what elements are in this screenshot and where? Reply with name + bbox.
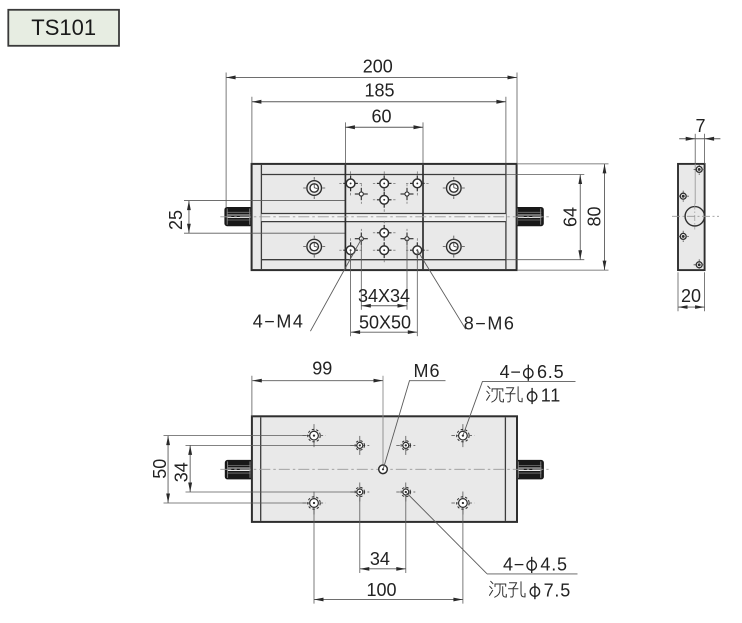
svg-text:4−M4: 4−M4 (253, 312, 305, 332)
svg-text:100: 100 (366, 580, 396, 600)
svg-text:M6: M6 (414, 361, 441, 381)
svg-text:34: 34 (171, 462, 191, 482)
svg-text:200: 200 (363, 57, 393, 77)
svg-text:34X34: 34X34 (358, 286, 410, 306)
svg-text:99: 99 (312, 358, 332, 378)
svg-text:80: 80 (585, 206, 605, 226)
svg-text:185: 185 (364, 81, 394, 101)
svg-text:25: 25 (166, 210, 186, 230)
svg-text:7.5: 7.5 (544, 581, 571, 601)
svg-text:8−M6: 8−M6 (464, 314, 516, 334)
svg-text:34: 34 (370, 549, 390, 569)
svg-text:11: 11 (541, 386, 561, 406)
svg-text:6.5: 6.5 (537, 362, 564, 382)
svg-text:60: 60 (371, 107, 391, 127)
svg-text:64: 64 (560, 207, 580, 227)
svg-text:50: 50 (150, 459, 170, 479)
svg-text:4−: 4− (503, 554, 525, 574)
svg-text:50X50: 50X50 (359, 313, 411, 333)
svg-text:7: 7 (695, 116, 705, 136)
svg-text:TS101: TS101 (31, 15, 96, 40)
svg-text:4.5: 4.5 (540, 554, 567, 574)
svg-text:4−: 4− (500, 362, 522, 382)
svg-text:20: 20 (681, 286, 701, 306)
